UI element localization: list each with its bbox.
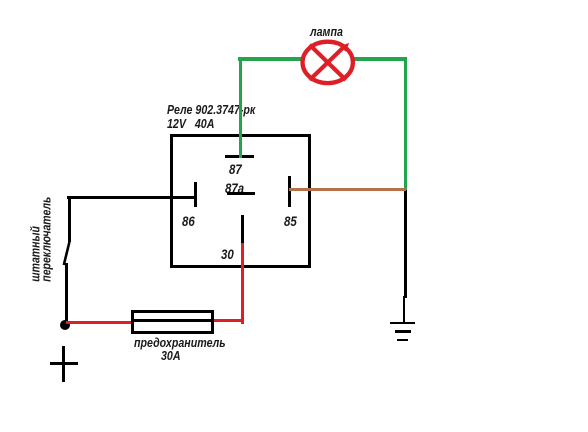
relay U1 body — [170, 134, 311, 268]
wire red battery to fuse — [66, 321, 133, 324]
pin 87 label — [229, 161, 242, 177]
node junction dot (battery tap) — [60, 320, 70, 330]
pin 87a contact bar — [227, 192, 255, 195]
label 30А — [161, 348, 181, 363]
pin 86 label — [182, 213, 195, 229]
lamp L1 (circle with X and arrow) — [296, 32, 360, 92]
label Реле 902.3747-рк — [167, 102, 255, 117]
label штатный переключатель (rotated) — [31, 147, 52, 281]
battery plus symbol — [62, 346, 65, 382]
pin 86 contact bar — [194, 182, 197, 207]
wire green top-right horizontal (lamp to right riser) — [354, 57, 407, 61]
wire black switch upper vertical — [68, 196, 71, 242]
wire green right vertical (down to brown junction) — [404, 57, 408, 190]
wire green vertical down to pin 87 — [239, 57, 243, 158]
wire red pin30 vertical — [241, 243, 244, 324]
switch SW1 blade (штатный переключатель) — [58, 238, 76, 268]
wire black switch lower vertical — [65, 263, 68, 322]
label лампа — [310, 24, 343, 39]
ground GND symbol — [390, 322, 415, 325]
wire black pin86 horizontal — [67, 196, 195, 199]
pin 87 contact bar — [225, 155, 255, 158]
label 12V 40A — [167, 116, 214, 131]
pin 85 contact bar — [288, 176, 291, 207]
fuse F1 element line — [134, 319, 211, 322]
pin 85 label — [284, 213, 297, 229]
pin 30 contact bar — [241, 215, 244, 243]
wire red fuse to pin30 riser — [214, 319, 244, 322]
wire brown pin85 to right riser — [289, 188, 406, 191]
wire black right vertical to ground — [404, 190, 407, 298]
fuse F1 body — [131, 310, 214, 334]
label предохранитель — [134, 335, 226, 350]
pin 87a label — [225, 180, 244, 196]
wire green top-left horizontal (pin87 riser to lamp) — [238, 57, 303, 61]
pin 30 label — [221, 246, 234, 262]
